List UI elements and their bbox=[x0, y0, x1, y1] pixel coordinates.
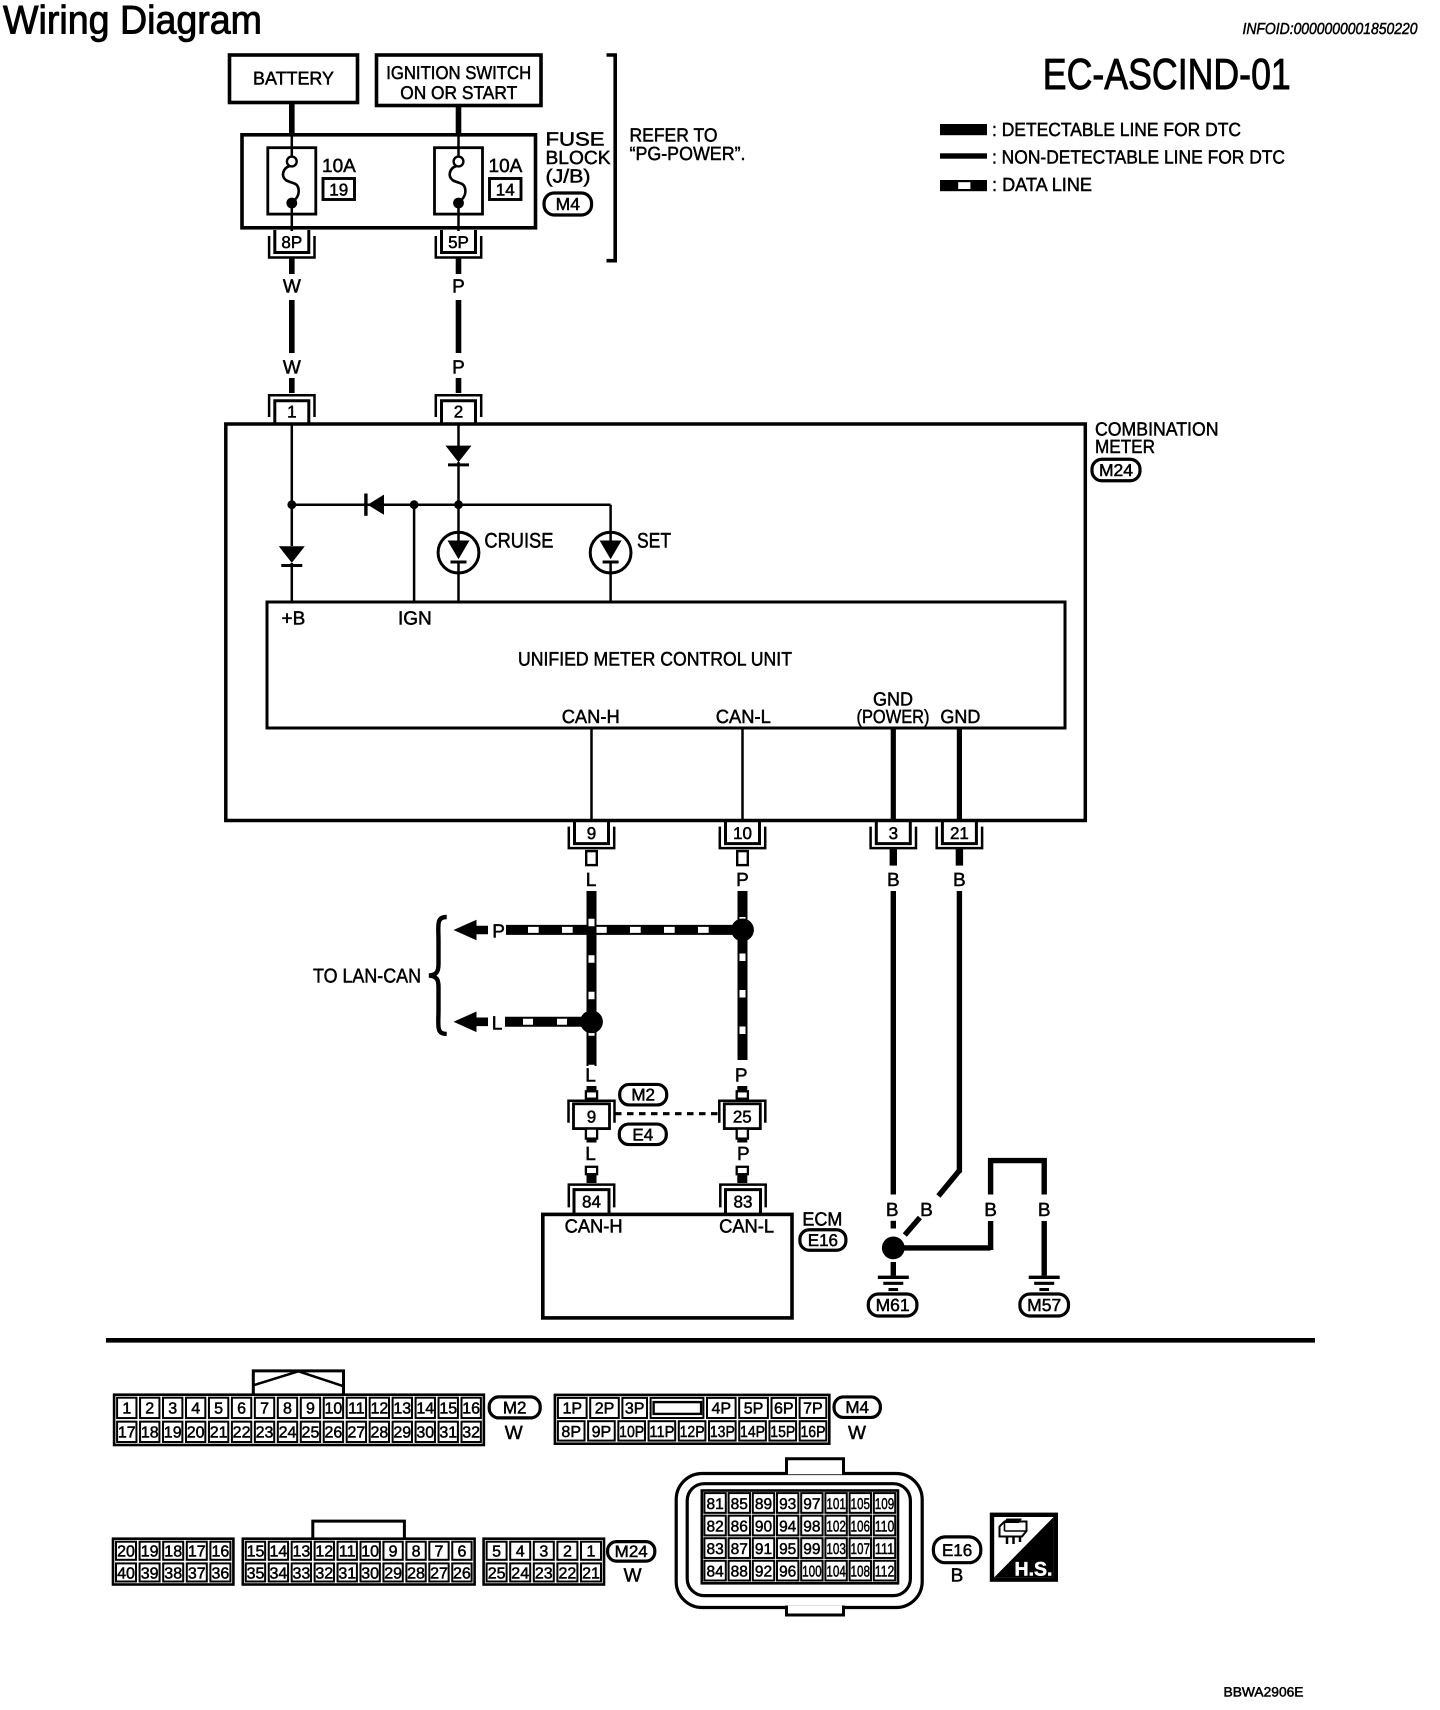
svg-text:14P: 14P bbox=[740, 1424, 765, 1441]
svg-text:CRUISE: CRUISE bbox=[484, 530, 553, 553]
svg-text:+B: +B bbox=[282, 609, 306, 630]
svg-text:93: 93 bbox=[779, 1496, 796, 1513]
svg-text:: DATA LINE: : DATA LINE bbox=[992, 175, 1092, 196]
SET indicator LED bbox=[590, 532, 631, 600]
data line stub into pin 84 bbox=[586, 1166, 597, 1183]
svg-text:83: 83 bbox=[706, 1541, 723, 1558]
svg-text:25: 25 bbox=[733, 1107, 752, 1126]
pin label CAN-L bbox=[716, 707, 771, 728]
svg-text:16: 16 bbox=[462, 1401, 480, 1418]
svg-text:14: 14 bbox=[416, 1401, 434, 1418]
fuse number box 14 bbox=[490, 179, 522, 200]
svg-text:21: 21 bbox=[582, 1565, 600, 1582]
svg-text:27: 27 bbox=[347, 1425, 365, 1442]
ground bus n-shape wire bbox=[991, 1161, 1045, 1276]
wire color label P on LAN line bbox=[492, 922, 505, 943]
legend non-detectable line sample bbox=[940, 153, 987, 158]
connector ref E16 oval bbox=[800, 1230, 846, 1251]
svg-text:10P: 10P bbox=[619, 1424, 644, 1441]
svg-text:8P: 8P bbox=[561, 1424, 581, 1441]
svg-text:7: 7 bbox=[260, 1401, 269, 1418]
svg-text:91: 91 bbox=[755, 1541, 772, 1558]
wire color label P below pin 10 bbox=[736, 870, 749, 891]
diode D2 pointing left on bus bbox=[366, 494, 384, 516]
svg-text:M61: M61 bbox=[876, 1295, 910, 1315]
svg-text:3: 3 bbox=[889, 824, 898, 843]
svg-text:4: 4 bbox=[191, 1401, 200, 1418]
combination meter pin 21 bbox=[937, 821, 982, 866]
svg-text:23: 23 bbox=[256, 1425, 274, 1442]
combination meter box M24 bbox=[226, 424, 1086, 821]
svg-text:“PG-POWER”.: “PG-POWER”. bbox=[630, 144, 746, 165]
connector M2 pin grid bbox=[114, 1395, 484, 1445]
svg-text:7P: 7P bbox=[803, 1401, 823, 1418]
pin label GND bbox=[940, 707, 980, 728]
svg-text:12: 12 bbox=[370, 1401, 388, 1418]
svg-text:: DETECTABLE LINE FOR DTC: : DETECTABLE LINE FOR DTC bbox=[992, 120, 1241, 141]
svg-text:18: 18 bbox=[164, 1544, 182, 1561]
svg-text:B: B bbox=[951, 1565, 964, 1586]
svg-text:31: 31 bbox=[338, 1565, 356, 1582]
svg-text:92: 92 bbox=[755, 1563, 772, 1580]
svg-text:13: 13 bbox=[292, 1544, 310, 1561]
svg-text:Wiring Diagram: Wiring Diagram bbox=[3, 0, 262, 43]
svg-text:10A: 10A bbox=[489, 156, 523, 177]
junction dot at +B branch bbox=[287, 500, 296, 509]
svg-text:98: 98 bbox=[803, 1518, 820, 1535]
TO LAN-CAN arrow P bbox=[454, 920, 489, 941]
ignition switch box bbox=[377, 55, 542, 106]
fuse block label bbox=[546, 130, 611, 188]
ground ref M61 oval bbox=[868, 1294, 917, 1316]
data line to LAN-CAN P bbox=[506, 925, 737, 935]
svg-text:: NON-DETECTABLE LINE FOR DTC: : NON-DETECTABLE LINE FOR DTC bbox=[992, 147, 1285, 168]
junction dot at CRUISE branch bbox=[454, 500, 463, 509]
svg-text:3: 3 bbox=[539, 1544, 548, 1561]
ECM box bbox=[543, 1214, 792, 1318]
data line stub into pin 83 bbox=[737, 1166, 748, 1183]
svg-text:M4: M4 bbox=[845, 1398, 869, 1417]
wire stub below 8P bbox=[289, 259, 295, 275]
svg-text:94: 94 bbox=[779, 1518, 797, 1535]
svg-text:3P: 3P bbox=[625, 1401, 645, 1418]
wire B from pin 3 bbox=[891, 891, 896, 1195]
ECM label bbox=[802, 1210, 842, 1231]
connector M4 pin grid bbox=[555, 1395, 829, 1444]
M4 color label W bbox=[848, 1423, 866, 1444]
svg-text:P: P bbox=[452, 358, 465, 379]
svg-text:106: 106 bbox=[851, 1518, 871, 1535]
fuse 14 10A bbox=[435, 136, 483, 231]
connector ref M24 oval bbox=[1092, 459, 1140, 481]
svg-text:32: 32 bbox=[315, 1565, 333, 1582]
svg-text:86: 86 bbox=[731, 1518, 748, 1535]
legend detectable line sample bbox=[940, 124, 987, 135]
wire color label B n-right bbox=[1038, 1200, 1051, 1221]
svg-text:24: 24 bbox=[511, 1565, 529, 1582]
wire color label L above connector 9 bbox=[585, 1066, 596, 1087]
svg-text:W: W bbox=[848, 1423, 866, 1444]
wire color label B left bbox=[886, 1200, 899, 1221]
svg-text:UNIFIED METER CONTROL UNIT: UNIFIED METER CONTROL UNIT bbox=[518, 649, 792, 671]
svg-text:L: L bbox=[492, 1013, 503, 1034]
svg-text:GND: GND bbox=[940, 707, 980, 728]
legend data line text bbox=[992, 175, 1092, 196]
svg-text:9: 9 bbox=[587, 824, 596, 843]
svg-text:16P: 16P bbox=[800, 1424, 825, 1441]
svg-text:34: 34 bbox=[270, 1565, 288, 1582]
svg-text:23: 23 bbox=[535, 1565, 553, 1582]
svg-text:26: 26 bbox=[453, 1565, 471, 1582]
svg-text:BATTERY: BATTERY bbox=[253, 67, 334, 88]
svg-text:15: 15 bbox=[247, 1544, 265, 1561]
wire color label P bbox=[452, 277, 465, 298]
svg-text:32: 32 bbox=[462, 1425, 480, 1442]
svg-text:EC-ASCIND-01: EC-ASCIND-01 bbox=[1043, 51, 1291, 99]
svg-text:26: 26 bbox=[325, 1425, 343, 1442]
connector E16 bottom tab bbox=[787, 1606, 844, 1616]
svg-text:28: 28 bbox=[370, 1425, 388, 1442]
svg-text:E4: E4 bbox=[632, 1125, 653, 1144]
svg-text:1: 1 bbox=[587, 1544, 596, 1561]
svg-text:30: 30 bbox=[416, 1425, 434, 1442]
svg-text:15: 15 bbox=[439, 1401, 457, 1418]
connector ref E4 oval bbox=[619, 1124, 666, 1145]
svg-text:8: 8 bbox=[412, 1544, 421, 1561]
svg-text:4: 4 bbox=[516, 1544, 525, 1561]
connector ref M4 oval bottom bbox=[834, 1397, 880, 1418]
svg-text:33: 33 bbox=[292, 1565, 310, 1582]
ECM pin label CAN-H bbox=[565, 1217, 623, 1238]
svg-text:8: 8 bbox=[283, 1401, 292, 1418]
svg-text:96: 96 bbox=[779, 1563, 796, 1580]
combination meter connector 2 bbox=[436, 395, 481, 423]
legend data line sample bbox=[940, 180, 987, 191]
svg-text:B: B bbox=[1038, 1200, 1051, 1221]
legend non-detectable line text bbox=[992, 147, 1285, 168]
svg-text:20: 20 bbox=[187, 1425, 205, 1442]
combination meter pin 10 bbox=[720, 821, 765, 866]
svg-text:39: 39 bbox=[141, 1565, 159, 1582]
svg-text:29: 29 bbox=[393, 1425, 411, 1442]
horizontal bus wire inside meter bbox=[292, 503, 611, 506]
svg-text:84: 84 bbox=[706, 1563, 724, 1580]
connector ref E16 oval bottom bbox=[933, 1537, 980, 1563]
svg-text:29: 29 bbox=[384, 1565, 402, 1582]
M24 grid key hood bbox=[313, 1521, 405, 1539]
svg-text:25: 25 bbox=[488, 1565, 506, 1582]
svg-text:7: 7 bbox=[435, 1544, 444, 1561]
CAN-L data line wire P vertical bbox=[738, 891, 748, 1060]
svg-text:9P: 9P bbox=[592, 1424, 612, 1441]
connector M24 pin grid group 3 bbox=[484, 1539, 604, 1585]
svg-text:81: 81 bbox=[706, 1496, 723, 1513]
svg-text:5P: 5P bbox=[744, 1401, 764, 1418]
battery box bbox=[230, 55, 358, 103]
svg-text:W: W bbox=[624, 1566, 642, 1587]
svg-text:W: W bbox=[283, 358, 301, 379]
svg-text:9: 9 bbox=[306, 1401, 315, 1418]
svg-text:1: 1 bbox=[287, 403, 296, 422]
svg-text:19: 19 bbox=[329, 180, 348, 199]
svg-text:H.S.: H.S. bbox=[1015, 1559, 1053, 1581]
ECM pin 84 bbox=[569, 1185, 614, 1214]
svg-text:P: P bbox=[735, 1066, 748, 1087]
wire W segment bbox=[289, 300, 295, 353]
svg-text:W: W bbox=[505, 1423, 523, 1444]
refer to PG-POWER text bbox=[630, 126, 746, 166]
svg-text:(J/B): (J/B) bbox=[546, 167, 591, 188]
svg-text:5P: 5P bbox=[448, 233, 469, 252]
M2 grid key hood bbox=[253, 1371, 343, 1396]
wire color label P above pin 83 bbox=[737, 1144, 750, 1165]
svg-text:B: B bbox=[984, 1200, 997, 1221]
svg-text:5: 5 bbox=[214, 1401, 223, 1418]
svg-text:103: 103 bbox=[826, 1541, 846, 1558]
svg-text:82: 82 bbox=[706, 1518, 723, 1535]
svg-text:M2: M2 bbox=[631, 1086, 655, 1105]
svg-text:P: P bbox=[737, 1144, 750, 1165]
pin label CAN-H bbox=[562, 707, 620, 728]
svg-text:8P: 8P bbox=[281, 233, 302, 252]
svg-text:105: 105 bbox=[851, 1496, 871, 1513]
fuse block box bbox=[242, 135, 536, 228]
svg-text:W: W bbox=[283, 277, 301, 298]
junction dot CAN-H LAN tap bbox=[580, 1010, 603, 1033]
svg-text:31: 31 bbox=[439, 1425, 457, 1442]
diode D1 on ignition branch bbox=[446, 446, 472, 465]
svg-text:TO LAN-CAN: TO LAN-CAN bbox=[313, 966, 421, 988]
diagram code EC-ASCIND-01 bbox=[1043, 51, 1291, 99]
svg-text:27: 27 bbox=[430, 1565, 448, 1582]
CRUISE indicator LED bbox=[438, 532, 479, 600]
ground symbol M61 bbox=[878, 1262, 909, 1290]
svg-text:M2: M2 bbox=[503, 1398, 527, 1417]
wire B segment to junction bbox=[891, 1221, 896, 1229]
TO LAN-CAN brace bbox=[429, 917, 447, 1034]
svg-text:4P: 4P bbox=[712, 1401, 732, 1418]
svg-text:CAN-H: CAN-H bbox=[562, 707, 620, 728]
svg-text:CAN-H: CAN-H bbox=[565, 1217, 623, 1238]
wire P segment bbox=[456, 300, 462, 353]
svg-text:22: 22 bbox=[233, 1425, 251, 1442]
svg-text:28: 28 bbox=[407, 1565, 425, 1582]
connector M24 pin grid group 2 bbox=[243, 1539, 475, 1585]
wire B diagonal segment to junction bbox=[905, 1218, 920, 1236]
svg-text:88: 88 bbox=[731, 1563, 748, 1580]
svg-text:12P: 12P bbox=[680, 1424, 705, 1441]
wire battery to fuse block bbox=[289, 102, 295, 135]
svg-text:18: 18 bbox=[141, 1425, 159, 1442]
svg-text:14: 14 bbox=[270, 1544, 288, 1561]
wire color label P above connector 25 bbox=[735, 1066, 748, 1087]
fuse 19 value label 10A bbox=[322, 156, 356, 177]
svg-text:16: 16 bbox=[212, 1544, 230, 1561]
svg-text:19: 19 bbox=[141, 1544, 159, 1561]
unified meter control unit box bbox=[267, 602, 1065, 728]
connector ref M4 oval bbox=[544, 193, 592, 215]
CRUISE label bbox=[484, 530, 553, 553]
wire ignition branch below diode bbox=[457, 462, 460, 533]
svg-text:11: 11 bbox=[339, 1544, 356, 1561]
connector ref M2 oval bottom bbox=[489, 1397, 540, 1418]
wire color label P lower bbox=[452, 358, 465, 379]
svg-text:SET: SET bbox=[637, 530, 671, 553]
svg-text:5: 5 bbox=[492, 1544, 501, 1561]
svg-text:6P: 6P bbox=[774, 1401, 794, 1418]
combination meter label bbox=[1095, 420, 1219, 459]
svg-text:25: 25 bbox=[302, 1425, 320, 1442]
svg-text:M24: M24 bbox=[1099, 461, 1133, 480]
fuse block connector 5P bbox=[436, 230, 481, 258]
connector E16 housing outer bbox=[676, 1474, 922, 1608]
connector M24 pin grid group 1 bbox=[113, 1539, 233, 1585]
svg-text:6: 6 bbox=[457, 1544, 466, 1561]
wire SET branch bbox=[609, 505, 612, 533]
svg-text:L: L bbox=[586, 870, 597, 891]
svg-text:P: P bbox=[736, 870, 749, 891]
wire W segment to connector 1 bbox=[289, 378, 295, 393]
svg-text:12: 12 bbox=[315, 1544, 333, 1561]
svg-text:17: 17 bbox=[118, 1425, 136, 1442]
svg-text:P: P bbox=[452, 277, 465, 298]
svg-text:85: 85 bbox=[731, 1496, 748, 1513]
svg-text:83: 83 bbox=[734, 1193, 753, 1212]
fuse number box 19 bbox=[323, 179, 355, 200]
svg-text:37: 37 bbox=[188, 1565, 206, 1582]
TO LAN-CAN label bbox=[313, 966, 421, 988]
wire stub below 5P bbox=[456, 259, 462, 275]
combination meter connector 1 bbox=[269, 395, 314, 423]
ECM pin 83 bbox=[720, 1185, 765, 1214]
svg-text:1P: 1P bbox=[562, 1401, 582, 1418]
svg-text:M24: M24 bbox=[615, 1543, 648, 1561]
connector ref M2 oval bbox=[620, 1084, 667, 1105]
fuse 14 value label 10A bbox=[489, 156, 523, 177]
svg-text:11P: 11P bbox=[649, 1424, 674, 1441]
svg-text:97: 97 bbox=[803, 1496, 820, 1513]
svg-text:9: 9 bbox=[389, 1544, 398, 1561]
wire GND unit to pin 21 bbox=[957, 728, 962, 820]
svg-text:M4: M4 bbox=[556, 194, 581, 214]
wire GND POWER unit to pin 3 bbox=[891, 728, 896, 820]
wire P segment to connector 2 bbox=[456, 378, 462, 393]
svg-text:107: 107 bbox=[851, 1541, 871, 1558]
svg-text:(POWER): (POWER) bbox=[857, 707, 930, 728]
wire color label B below pin 3 bbox=[887, 870, 900, 891]
unified meter control unit label bbox=[518, 649, 792, 671]
svg-text:89: 89 bbox=[755, 1496, 772, 1513]
svg-text:111: 111 bbox=[875, 1541, 895, 1558]
svg-text:ON OR START: ON OR START bbox=[400, 82, 517, 103]
ground junction dot bbox=[882, 1237, 905, 1260]
svg-text:M57: M57 bbox=[1027, 1295, 1061, 1315]
connector E16 top tab bbox=[787, 1459, 844, 1475]
figure code bbox=[1224, 1685, 1304, 1700]
separator line bbox=[106, 1338, 1315, 1343]
svg-text:19: 19 bbox=[164, 1425, 182, 1442]
wire color label B diagonal bbox=[920, 1200, 933, 1221]
combination meter pin 9 bbox=[569, 821, 614, 866]
data line to LAN-CAN L bbox=[505, 1017, 585, 1027]
wire color label B below pin 21 bbox=[953, 870, 966, 891]
svg-text:15P: 15P bbox=[770, 1424, 795, 1441]
svg-text:1: 1 bbox=[122, 1401, 131, 1418]
E16 color label B bbox=[951, 1565, 964, 1586]
svg-text:2: 2 bbox=[454, 403, 463, 422]
svg-text:35: 35 bbox=[247, 1565, 265, 1582]
svg-text:84: 84 bbox=[582, 1193, 601, 1212]
title bbox=[3, 0, 262, 43]
svg-text:102: 102 bbox=[826, 1518, 846, 1535]
wire CAN-H unit to pin 9 bbox=[590, 728, 593, 820]
svg-text:101: 101 bbox=[826, 1496, 846, 1513]
svg-text:P: P bbox=[492, 922, 505, 943]
svg-text:B: B bbox=[920, 1200, 933, 1221]
in-line connector 9 (M2/E4) bbox=[569, 1086, 615, 1143]
SET label bbox=[637, 530, 671, 553]
svg-text:B: B bbox=[887, 870, 900, 891]
wire IGN to unit bbox=[413, 505, 416, 601]
svg-text:L: L bbox=[585, 1144, 596, 1165]
ECM pin label CAN-L bbox=[719, 1217, 774, 1238]
svg-text:109: 109 bbox=[875, 1496, 895, 1513]
refer to PG-POWER bracket bbox=[607, 55, 616, 261]
svg-text:INFOID:0000000001850220: INFOID:0000000001850220 bbox=[1243, 21, 1418, 38]
connector ref M24 oval bottom bbox=[608, 1542, 655, 1562]
wire color label W bbox=[283, 277, 301, 298]
TO LAN-CAN arrow L bbox=[454, 1012, 489, 1033]
svg-text:L: L bbox=[585, 1066, 596, 1087]
wire +B to unit bbox=[291, 563, 294, 601]
wire +B branch inside meter bbox=[291, 424, 294, 546]
svg-text:104: 104 bbox=[826, 1563, 846, 1580]
svg-text:21: 21 bbox=[950, 824, 969, 843]
wire color label L above pin 84 bbox=[585, 1144, 596, 1165]
wire color label W lower bbox=[283, 358, 301, 379]
svg-text:36: 36 bbox=[212, 1565, 230, 1582]
connector E16 housing inner bbox=[687, 1484, 910, 1596]
svg-text:IGN: IGN bbox=[398, 609, 432, 630]
svg-text:90: 90 bbox=[755, 1518, 773, 1535]
svg-text:2: 2 bbox=[563, 1544, 572, 1561]
svg-text:METER: METER bbox=[1095, 437, 1155, 458]
svg-text:E16: E16 bbox=[808, 1231, 838, 1250]
svg-text:9: 9 bbox=[587, 1107, 596, 1126]
legend detectable line text bbox=[992, 120, 1241, 141]
svg-text:ECM: ECM bbox=[802, 1210, 842, 1231]
svg-text:22: 22 bbox=[559, 1565, 577, 1582]
svg-text:87: 87 bbox=[731, 1541, 748, 1558]
svg-text:108: 108 bbox=[851, 1563, 871, 1580]
svg-text:10: 10 bbox=[361, 1544, 379, 1561]
junction dot at IGN branch bbox=[410, 500, 419, 509]
svg-text:2: 2 bbox=[145, 1401, 154, 1418]
svg-text:14: 14 bbox=[496, 180, 515, 199]
svg-text:11: 11 bbox=[348, 1401, 365, 1418]
svg-text:24: 24 bbox=[279, 1425, 297, 1442]
svg-text:IGNITION SWITCH: IGNITION SWITCH bbox=[386, 62, 531, 83]
svg-text:10: 10 bbox=[733, 824, 752, 843]
svg-text:BBWA2906E: BBWA2906E bbox=[1224, 1685, 1304, 1700]
wire color label L below pin 9 bbox=[586, 870, 597, 891]
svg-text:10A: 10A bbox=[322, 156, 356, 177]
svg-text:95: 95 bbox=[779, 1541, 796, 1558]
svg-text:30: 30 bbox=[361, 1565, 379, 1582]
pin label IGN bbox=[398, 609, 432, 630]
svg-text:38: 38 bbox=[164, 1565, 182, 1582]
svg-text:13P: 13P bbox=[710, 1424, 735, 1441]
